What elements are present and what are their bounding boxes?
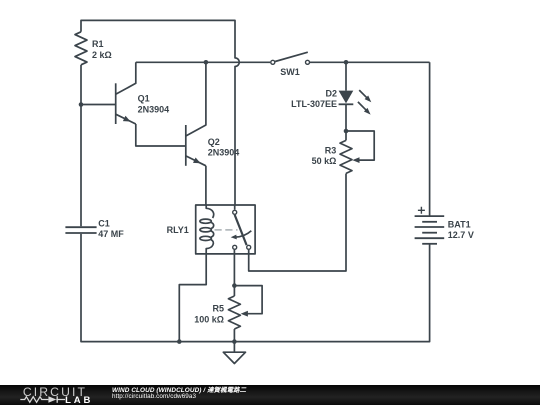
svg-text:100 kΩ: 100 kΩ xyxy=(194,314,224,324)
svg-text:R3: R3 xyxy=(325,145,337,155)
node junction dot LED cathode / R3 top xyxy=(344,129,349,134)
footer title text xyxy=(112,385,246,394)
CircuitLab logo xyxy=(0,385,100,406)
wire relay armature contact down to R5 xyxy=(233,250,235,286)
svg-text:LAB: LAB xyxy=(65,395,93,406)
svg-text:47 MF: 47 MF xyxy=(98,229,124,239)
svg-text:2 kΩ: 2 kΩ xyxy=(92,50,112,60)
LED D2 LTL-307EE xyxy=(339,62,372,131)
svg-text:R1: R1 xyxy=(92,39,104,49)
node junction dot ground tap xyxy=(232,339,237,344)
wire relay coil bottom to ground rail xyxy=(179,254,206,342)
svg-text:Q1: Q1 xyxy=(138,94,150,104)
ground xyxy=(223,342,245,364)
node junction dot at Q1 base tap xyxy=(79,102,84,107)
potentiometer R3 50k xyxy=(340,131,374,173)
wire Q1 emitter to Q2 base xyxy=(136,124,186,146)
footer bar xyxy=(0,385,540,405)
svg-text:2N3904: 2N3904 xyxy=(208,148,240,158)
svg-text:Q2: Q2 xyxy=(208,137,220,147)
switch SW1 xyxy=(271,52,310,64)
svg-text:RLY1: RLY1 xyxy=(167,225,189,235)
wire bottom rail from C1 to battery bottom xyxy=(81,234,430,342)
node junction dot LED anode xyxy=(344,60,349,65)
battery BAT1 xyxy=(415,207,445,244)
node junction dot Q2 collector on rail xyxy=(204,60,209,65)
potentiometer R5 100k xyxy=(228,286,262,342)
wire left rail R1 bottom to C1 top plate xyxy=(80,65,82,226)
transistor Q1 2N3904 xyxy=(116,62,136,124)
svg-text:LTL-307EE: LTL-307EE xyxy=(291,99,337,109)
svg-text:D2: D2 xyxy=(325,88,337,98)
wire R3 bottom to relay NO contact xyxy=(249,173,346,271)
svg-text:SW1: SW1 xyxy=(280,67,300,77)
svg-text:50 kΩ: 50 kΩ xyxy=(312,156,337,166)
capacitor C1 xyxy=(65,227,96,233)
svg-text:12.7 V: 12.7 V xyxy=(448,230,474,240)
svg-text:R5: R5 xyxy=(212,304,224,314)
svg-text:2N3904: 2N3904 xyxy=(138,104,170,114)
node junction dot R5 top xyxy=(232,283,237,288)
wire Q2 emitter down to relay coil xyxy=(205,166,207,205)
wire battery top lead xyxy=(429,62,431,216)
relay RLY1 xyxy=(196,205,255,254)
wire Q1 base wire xyxy=(81,104,116,106)
footer url text xyxy=(112,393,196,400)
wire SW1 to battery top xyxy=(310,61,430,63)
resistor R1 xyxy=(75,32,87,65)
node junction dot coil return on bottom rail xyxy=(177,339,182,344)
transistor Q2 2N3904 xyxy=(186,62,206,166)
wire collector rail y=62 from Q1 collector to SW1 xyxy=(136,61,270,63)
wire top rail from R1 top to relay common, with hop over collector rail xyxy=(81,20,239,205)
svg-text:BAT1: BAT1 xyxy=(448,219,471,229)
svg-text:C1: C1 xyxy=(98,218,110,228)
